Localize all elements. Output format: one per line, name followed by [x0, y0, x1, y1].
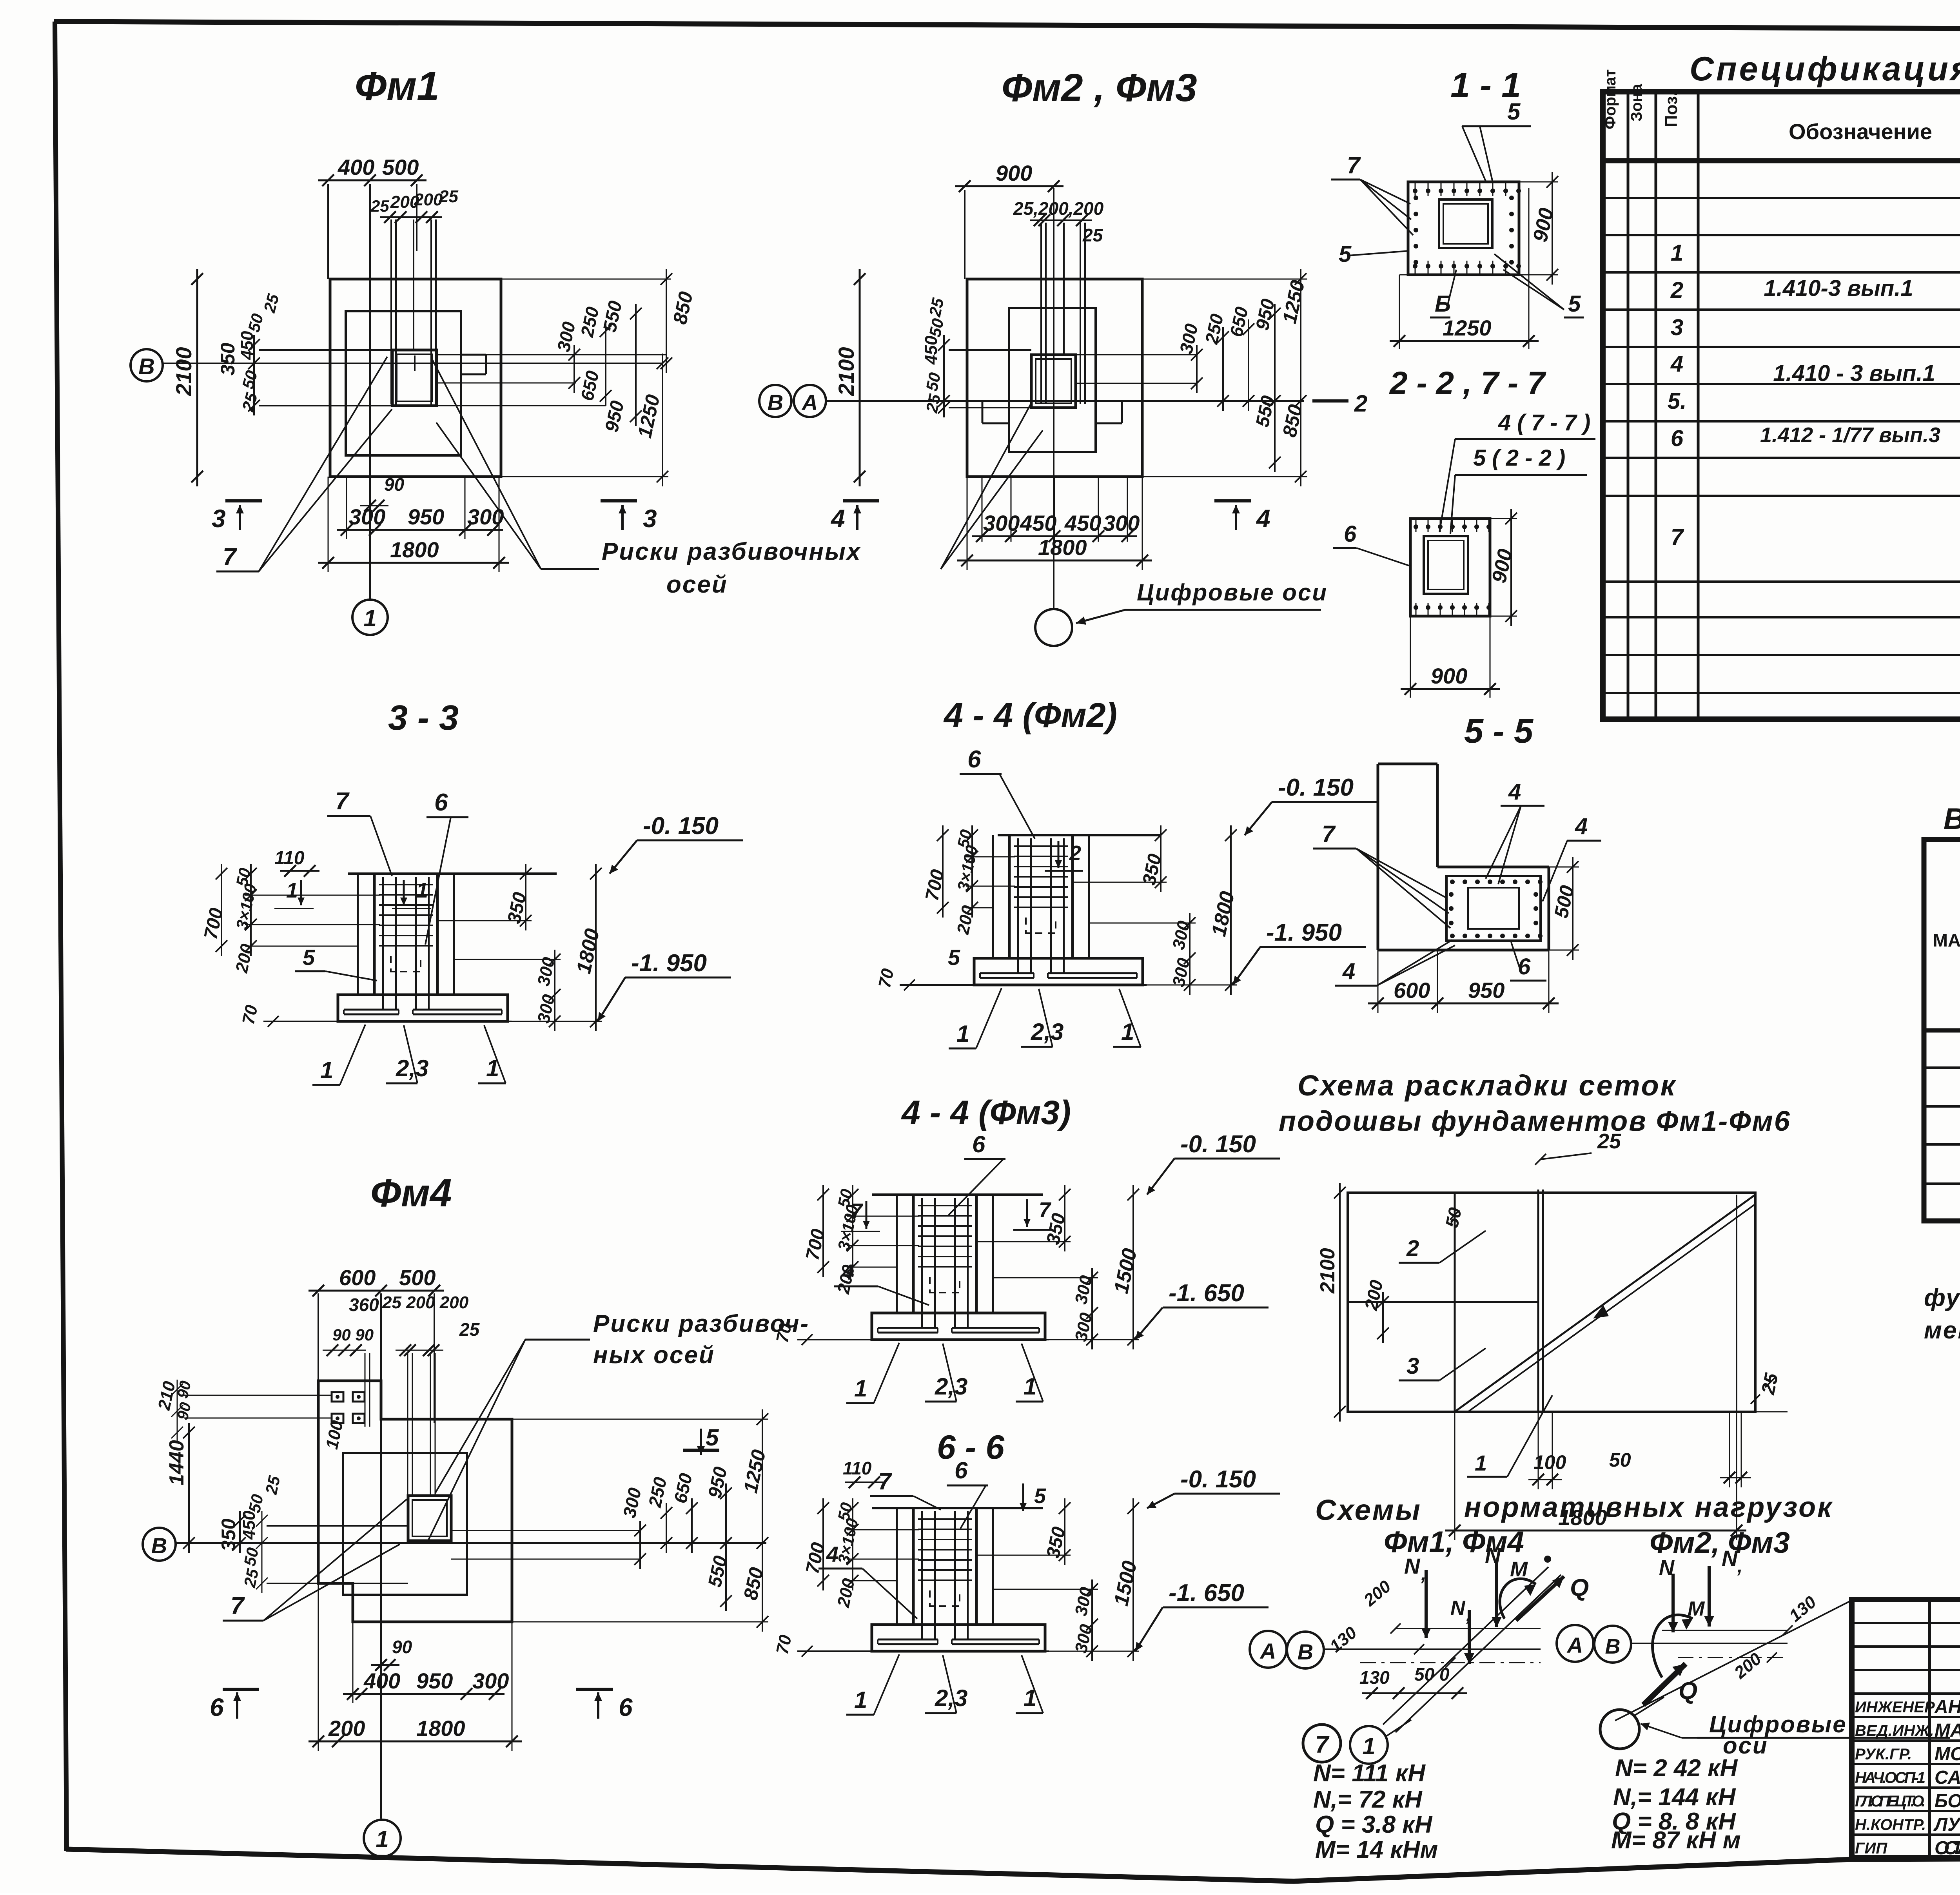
svg-text:7: 7 — [851, 1199, 864, 1223]
svg-text:Обозначение: Обозначение — [1789, 119, 1932, 144]
svg-text:подошвы фундаментов Фм1-Фм6: подошвы фундаментов Фм1-Фм6 — [1279, 1106, 1791, 1137]
svg-text:1: 1 — [1475, 1451, 1487, 1475]
svg-text:3: 3 — [643, 504, 657, 533]
svg-text:1: 1 — [416, 879, 428, 902]
svg-text:-0. 150: -0. 150 — [1278, 774, 1354, 801]
svg-text:50: 50 — [1609, 1449, 1631, 1471]
svg-text:1: 1 — [854, 1375, 867, 1402]
svg-text:7: 7 — [878, 1468, 892, 1494]
svg-text:7: 7 — [1347, 152, 1361, 178]
svg-text:3: 3 — [1406, 1353, 1419, 1379]
svg-text:5: 5 — [1034, 1484, 1046, 1508]
svg-text:N: N — [1659, 1556, 1675, 1579]
svg-text:мента и грунта на его у: мента и грунта на его уступах. — [1924, 1317, 1960, 1344]
svg-text:25: 25 — [1597, 1130, 1621, 1153]
svg-text:M= 87 кН м: M= 87 кН м — [1611, 1827, 1741, 1854]
svg-text:90: 90 — [392, 1637, 412, 1657]
svg-text:-1. 950: -1. 950 — [1266, 919, 1342, 946]
svg-text:Риски разбивоч-: Риски разбивоч- — [593, 1310, 809, 1337]
svg-text:450: 450 — [922, 335, 941, 365]
svg-text:300: 300 — [467, 504, 504, 529]
svg-text:N: N — [1404, 1554, 1421, 1578]
svg-text:600: 600 — [1394, 978, 1430, 1003]
svg-text:1800: 1800 — [390, 537, 439, 562]
svg-text:500: 500 — [399, 1265, 436, 1290]
svg-text:6: 6 — [967, 746, 981, 773]
svg-text:1: 1 — [376, 1826, 388, 1852]
svg-text:1440: 1440 — [165, 1440, 188, 1485]
svg-text:-1. 650: -1. 650 — [1169, 1579, 1244, 1607]
svg-text:Фм4: Фм4 — [370, 1171, 452, 1215]
svg-text:Риски разбивочных: Риски разбивочных — [602, 538, 861, 565]
svg-text:1800: 1800 — [1038, 535, 1087, 560]
svg-text:N= 111 кН: N= 111 кН — [1313, 1760, 1426, 1787]
svg-text:Схемы: Схемы — [1315, 1494, 1422, 1526]
svg-text:450: 450 — [240, 1511, 259, 1540]
svg-text:4: 4 — [1575, 814, 1588, 839]
svg-text:5: 5 — [1339, 241, 1352, 267]
svg-text:М: М — [1510, 1558, 1528, 1581]
svg-text:N,= 144 кН: N,= 144 кН — [1613, 1784, 1736, 1811]
svg-text:1.410 - 3 вып.1: 1.410 - 3 вып.1 — [1773, 361, 1935, 386]
svg-text:5.: 5. — [1668, 388, 1686, 414]
svg-text:130: 130 — [1359, 1667, 1390, 1688]
svg-text:В: В — [1298, 1639, 1313, 1664]
svg-text:300: 300 — [349, 504, 385, 529]
svg-text:,: , — [1737, 1556, 1742, 1577]
svg-text:3 - 3: 3 - 3 — [388, 698, 459, 738]
svg-text:7: 7 — [1315, 1731, 1330, 1758]
svg-text:7: 7 — [1322, 821, 1336, 847]
svg-text:Q: Q — [1679, 1677, 1697, 1705]
svg-text:1250: 1250 — [1443, 316, 1492, 340]
svg-text:400: 400 — [338, 155, 374, 180]
svg-text:2: 2 — [1069, 841, 1081, 865]
svg-text:1800: 1800 — [416, 1716, 465, 1741]
svg-text:1.410-3 вып.1: 1.410-3 вып.1 — [1764, 276, 1913, 301]
svg-text:Фм1: Фм1 — [355, 63, 439, 109]
svg-text:МАРКА ЭЛЕМЕНТА: МАРКА ЭЛЕМЕНТА — [1933, 930, 1960, 950]
svg-text:90: 90 — [384, 474, 405, 495]
svg-text:50 0: 50 0 — [1414, 1664, 1450, 1685]
svg-text:5: 5 — [706, 1424, 719, 1451]
svg-text:2100: 2100 — [171, 347, 196, 396]
svg-text:300: 300 — [472, 1668, 509, 1693]
svg-text:4: 4 — [1670, 351, 1683, 377]
svg-text:А: А — [801, 390, 818, 415]
svg-text:7: 7 — [230, 1592, 245, 1619]
svg-text:1: 1 — [320, 1057, 333, 1083]
svg-text:МОРГУНОВ: МОРГУНОВ — [1935, 1744, 1960, 1764]
svg-text:ИНЖЕНЕР: ИНЖЕНЕР — [1855, 1699, 1935, 1716]
svg-text:900: 900 — [996, 161, 1032, 185]
svg-text:7: 7 — [1039, 1198, 1052, 1222]
svg-text:4 - 4 (Фм3): 4 - 4 (Фм3) — [901, 1094, 1071, 1132]
svg-text:нормативных нагрузок: нормативных нагрузок — [1464, 1492, 1833, 1523]
svg-text:200: 200 — [328, 1716, 365, 1741]
svg-text:1: 1 — [286, 879, 298, 902]
svg-text:СААКЬЯНЦ: СААКЬЯНЦ — [1935, 1767, 1960, 1788]
svg-text:5: 5 — [1507, 98, 1521, 125]
svg-text:110: 110 — [843, 1458, 872, 1478]
svg-text:25,200,200: 25,200,200 — [1013, 198, 1104, 219]
svg-text:фундамента без учета н: фундамента без учета нагрузок на пол, ве… — [1924, 1284, 1960, 1311]
svg-text:N: N — [1485, 1543, 1501, 1568]
svg-text:M: M — [1688, 1598, 1705, 1620]
svg-text:2: 2 — [1354, 390, 1367, 417]
svg-text:450: 450 — [1020, 511, 1056, 535]
svg-text:7: 7 — [1671, 524, 1684, 550]
svg-text:В: В — [1605, 1635, 1621, 1658]
svg-text:БОЯРЧЕНКО: БОЯРЧЕНКО — [1935, 1791, 1960, 1812]
svg-text:25: 25 — [439, 187, 458, 206]
svg-text:ВЕД.ИНЖ.: ВЕД.ИНЖ. — [1855, 1722, 1934, 1739]
svg-text:1: 1 — [854, 1687, 867, 1713]
svg-text:1: 1 — [1671, 240, 1683, 266]
svg-text:2: 2 — [1406, 1236, 1419, 1261]
svg-text:6: 6 — [1671, 426, 1684, 451]
svg-text:осей: осей — [666, 571, 728, 598]
svg-text:N= 2 42 кН: N= 2 42 кН — [1615, 1755, 1738, 1782]
svg-text:6: 6 — [1344, 521, 1357, 547]
svg-text:25: 25 — [459, 1319, 480, 1340]
svg-text:25 200 200: 25 200 200 — [382, 1293, 469, 1312]
svg-text:300: 300 — [1103, 511, 1140, 535]
svg-text:АНДРЕЕВА: АНДРЕЕВА — [1934, 1697, 1960, 1717]
svg-text:ОСТАШЕВСКИЙ: ОСТАШЕВСКИЙ — [1935, 1837, 1960, 1859]
svg-text:4: 4 — [1508, 779, 1521, 805]
svg-text:500: 500 — [382, 155, 419, 180]
svg-text:360: 360 — [349, 1295, 379, 1315]
svg-text:ГИП: ГИП — [1855, 1840, 1887, 1857]
svg-text:Q: Q — [1570, 1574, 1589, 1601]
svg-text:Ведомость: Ведомость — [1944, 802, 1960, 836]
svg-text:ных осей: ных осей — [593, 1342, 715, 1369]
svg-text:Формат: Формат — [1602, 69, 1619, 129]
svg-text:5: 5 — [303, 945, 315, 970]
svg-text:4: 4 — [830, 504, 845, 533]
svg-text:1: 1 — [1362, 1733, 1375, 1759]
svg-text:N,= 72 кН: N,= 72 кН — [1313, 1786, 1423, 1813]
svg-text:Зона: Зона — [1628, 83, 1645, 121]
svg-text:5: 5 — [1568, 291, 1581, 317]
svg-text:N: N — [1722, 1546, 1738, 1570]
svg-text:5 ( 2 - 2 ): 5 ( 2 - 2 ) — [1473, 445, 1565, 471]
svg-text:300: 300 — [983, 511, 1020, 535]
svg-text:50: 50 — [922, 371, 944, 392]
svg-text:4 ( 7 - 7 ): 4 ( 7 - 7 ) — [1498, 410, 1590, 435]
svg-text:6: 6 — [434, 789, 448, 816]
svg-text:3: 3 — [212, 504, 226, 533]
svg-text:450: 450 — [238, 331, 257, 360]
svg-text:950: 950 — [416, 1668, 453, 1693]
svg-text:1.412 - 1/77 вып.3: 1.412 - 1/77 вып.3 — [1760, 423, 1940, 447]
svg-text:Цифровые оси: Цифровые оси — [1137, 579, 1328, 606]
svg-text:В: В — [151, 1533, 167, 1558]
svg-text:1: 1 — [363, 605, 376, 631]
svg-text:2 - 2 , 7 - 7: 2 - 2 , 7 - 7 — [1389, 365, 1546, 401]
svg-text:4: 4 — [826, 1542, 838, 1567]
svg-text:6 - 6: 6 - 6 — [937, 1429, 1005, 1466]
svg-text:-1. 950: -1. 950 — [631, 950, 707, 977]
svg-text:Н.КОНТР.: Н.КОНТР. — [1855, 1816, 1926, 1833]
svg-text:90 90: 90 90 — [332, 1326, 374, 1344]
svg-text:-0. 150: -0. 150 — [643, 812, 719, 840]
svg-text:В: В — [768, 390, 783, 415]
svg-text:Фм2, Фм3: Фм2, Фм3 — [1650, 1526, 1790, 1560]
svg-text:4: 4 — [842, 1260, 854, 1284]
svg-text:950: 950 — [408, 504, 444, 529]
svg-text:2100: 2100 — [1316, 1248, 1339, 1294]
svg-text:3: 3 — [1671, 315, 1683, 340]
svg-text:600: 600 — [339, 1265, 376, 1290]
svg-text:7: 7 — [223, 544, 237, 571]
svg-text:6: 6 — [955, 1457, 968, 1483]
svg-text:РУК.ГР.: РУК.ГР. — [1855, 1746, 1912, 1763]
svg-text:А: А — [1259, 1639, 1276, 1663]
svg-text:350: 350 — [217, 343, 239, 375]
svg-text:,: , — [1466, 1606, 1471, 1625]
svg-text:50: 50 — [240, 1546, 262, 1567]
svg-text:-0. 150: -0. 150 — [1180, 1131, 1256, 1158]
svg-text:Схема раскладки сеток: Схема раскладки сеток — [1298, 1069, 1677, 1102]
svg-text:900: 900 — [1431, 664, 1467, 688]
svg-text:4: 4 — [1256, 504, 1270, 533]
svg-text:5 - 5: 5 - 5 — [1464, 711, 1534, 750]
svg-text:Спецификация: Спецификация — [1690, 50, 1960, 88]
svg-text:N: N — [1450, 1597, 1466, 1619]
svg-text:Фм2 , Фм3: Фм2 , Фм3 — [1002, 66, 1197, 110]
svg-text:450: 450 — [1064, 511, 1101, 535]
svg-text:В: В — [138, 354, 155, 379]
svg-text:950: 950 — [1468, 978, 1504, 1003]
svg-text:ЛУЦЕНКО: ЛУЦЕНКО — [1933, 1814, 1960, 1835]
svg-text:-1. 650: -1. 650 — [1169, 1280, 1244, 1307]
svg-text:400: 400 — [363, 1668, 400, 1693]
svg-text:50: 50 — [926, 317, 947, 338]
svg-text:6: 6 — [619, 1693, 633, 1721]
svg-text:4: 4 — [1342, 959, 1355, 984]
svg-text:6: 6 — [972, 1131, 985, 1157]
svg-text:,: , — [1421, 1564, 1426, 1585]
svg-text:А: А — [1566, 1633, 1583, 1657]
svg-text:M= 14 кНм: M= 14 кНм — [1315, 1836, 1438, 1863]
svg-text:ГЛ.СПЕЦ.Т.О.: ГЛ.СПЕЦ.Т.О. — [1855, 1793, 1926, 1810]
svg-text:4 - 4 (Фм2): 4 - 4 (Фм2) — [943, 696, 1117, 734]
svg-text:7: 7 — [335, 788, 350, 815]
svg-text:НАЧ.ОСП-1: НАЧ.ОСП-1 — [1855, 1769, 1926, 1786]
svg-text:200: 200 — [414, 190, 443, 209]
svg-text:1: 1 — [956, 1021, 969, 1047]
svg-text:Поз.: Поз. — [1662, 91, 1681, 127]
svg-text:2100: 2100 — [834, 347, 858, 396]
svg-text:5: 5 — [948, 945, 960, 970]
svg-text:Q = 3.8 кН: Q = 3.8 кН — [1315, 1811, 1433, 1838]
svg-text:110: 110 — [274, 848, 305, 869]
svg-text:6: 6 — [210, 1693, 224, 1721]
svg-text:2: 2 — [1670, 277, 1683, 303]
svg-text:25: 25 — [370, 197, 389, 215]
svg-text:-0. 150: -0. 150 — [1180, 1466, 1256, 1493]
